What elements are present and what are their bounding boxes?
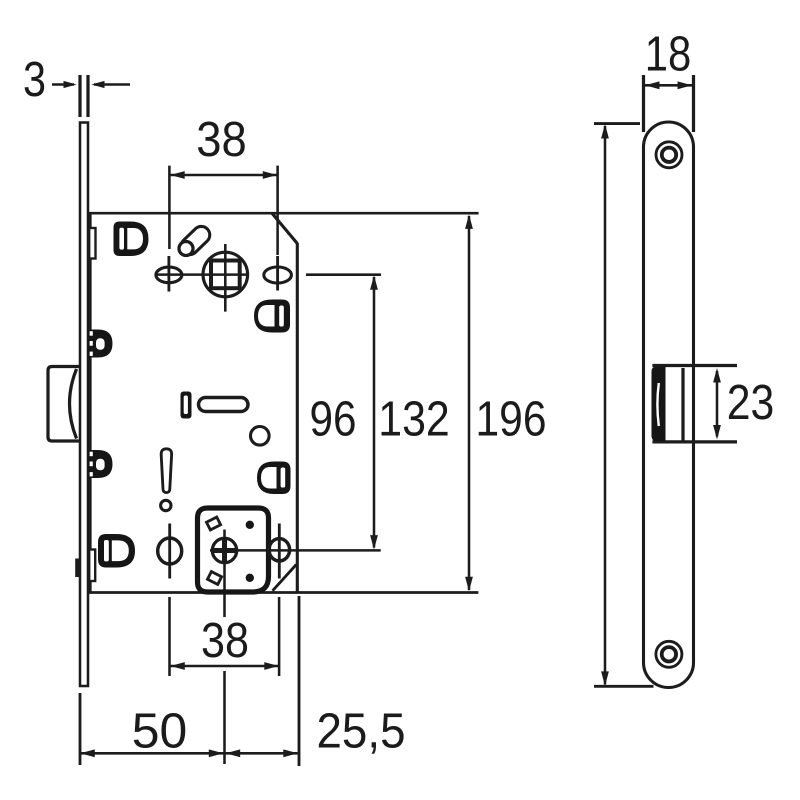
notch tab lower on body edge: [89, 550, 95, 582]
teardrop slot: [161, 449, 171, 493]
small tilted rect upper in box: [206, 517, 220, 530]
dimension 132: [468, 216, 471, 590]
extension line for 96 top: [306, 273, 381, 276]
faceplate front view: [644, 122, 694, 688]
dimension 25,5: [226, 752, 298, 755]
dark slot rectangle: [181, 392, 192, 419]
horizontal centerline y=550.4: [210, 549, 381, 552]
small tilted rect lower in box: [207, 572, 221, 585]
latch bolt front view: [652, 367, 666, 442]
small ring below teardrop: [161, 500, 171, 510]
faceplate edge view: [80, 123, 88, 687]
dimension 50: [79, 693, 82, 765]
slanted capsule slot: [178, 223, 214, 258]
dimension 23: [716, 371, 719, 437]
spindle follower crosshair: [156, 244, 248, 312]
svg-text:96: 96: [310, 392, 357, 447]
upper-right screw hole: [264, 267, 292, 283]
omega tab upper on faceplate: [88, 330, 113, 358]
svg-text:50: 50: [132, 704, 188, 759]
small circle right: [250, 427, 269, 446]
notch tab upper on body edge: [89, 228, 95, 259]
spindle follower circle: [203, 252, 248, 297]
horizontal pill slot: [199, 398, 249, 412]
dimension 96: [373, 277, 376, 548]
bottom screw hole: [656, 641, 682, 667]
lower-right screw hole: [269, 539, 290, 561]
svg-text:38: 38: [201, 613, 249, 668]
dimension 3 (faceplate thickness): [80, 75, 88, 117]
svg-text:38: 38: [196, 112, 247, 167]
capsule end circle: [179, 242, 193, 256]
dimension 38 top: [169, 166, 277, 255]
stub on plate outer face: [75, 559, 80, 578]
svg-text:23: 23: [727, 375, 775, 430]
dimension 18: [644, 75, 694, 132]
spindle follower square: [211, 261, 240, 289]
svg-text:18: 18: [645, 27, 692, 82]
lower-left screw hole: [158, 538, 182, 564]
D-hole bottom-left: [98, 534, 135, 568]
latch opening lines: [652, 364, 737, 367]
rivet dots in box: [246, 521, 254, 529]
omega tab lower on faceplate: [88, 450, 113, 478]
svg-text:25,5: 25,5: [317, 704, 406, 759]
magnet box: [198, 508, 269, 592]
dimension 38 bottom: [170, 597, 280, 676]
svg-text:196: 196: [476, 392, 547, 447]
D-hole top-left: [114, 222, 149, 257]
vertical centerline x=224.5: [223, 530, 226, 765]
svg-text:3: 3: [23, 52, 46, 107]
top screw hole: [656, 142, 682, 168]
D-hole right-upper: [254, 300, 290, 333]
latch bolt side view: [48, 367, 79, 442]
svg-text:132: 132: [378, 392, 450, 447]
dimension 196 (right view): [594, 122, 640, 125]
lock body outline: [89, 213, 479, 593]
D-hole right-mid: [257, 462, 291, 495]
upper-left screw hole: [156, 267, 182, 283]
screw head in box: [212, 538, 236, 562]
